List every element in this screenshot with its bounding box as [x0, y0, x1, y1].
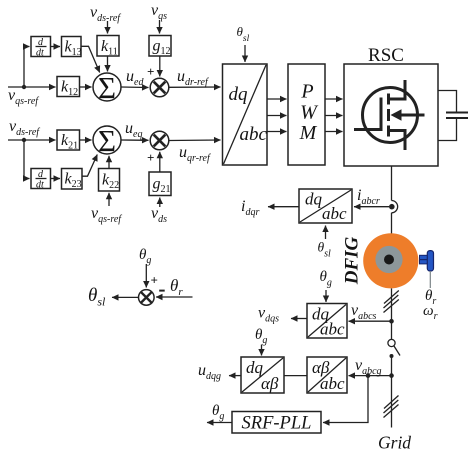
- svg-text:dt: dt: [36, 180, 44, 191]
- svg-text:ued: ued: [126, 68, 144, 88]
- summer theta_sl (multiplier style): [139, 290, 155, 306]
- svg-text:idqr: idqr: [241, 198, 259, 218]
- gain block k12: [57, 77, 80, 97]
- svg-text:dt: dt: [36, 48, 44, 59]
- wire theta_sl up into dq/abc: [325, 226, 327, 240]
- wire k11 down to summer: [107, 56, 109, 72]
- wire k23 to summer (diagonal): [82, 155, 97, 177]
- capacitor C (DC-link): [446, 113, 468, 119]
- wire PWM to RSC (phase a): [325, 98, 343, 100]
- machine DFIG (stator orange): [363, 233, 418, 288]
- block SRF-PLL: [232, 412, 321, 434]
- wire k22 up to summer: [108, 156, 110, 169]
- svg-text:vdqs: vdqs: [258, 305, 279, 325]
- derivative block d/dt (row1): [31, 37, 51, 57]
- wire branch up to d/dt: [24, 47, 30, 88]
- three-phase marks (grid): [384, 396, 399, 418]
- minus sign (slip summer): [159, 290, 165, 292]
- svg-text:k22: k22: [102, 172, 119, 192]
- wire theta_sl into dq/abc: [244, 45, 246, 62]
- svg-text:g21: g21: [153, 176, 171, 196]
- node SRF-PLL tap junction: [366, 373, 371, 378]
- svg-text:dq: dq: [229, 84, 249, 105]
- svg-text:iabcr: iabcr: [357, 187, 380, 207]
- svg-text:k23: k23: [65, 171, 82, 191]
- derivative block d/dt (row2): [31, 169, 51, 189]
- wire dq/abc to PWM (phase c): [267, 131, 287, 133]
- wire k21 to summer: [80, 139, 92, 141]
- wire v_ds-ref into k11: [107, 21, 109, 34]
- machine DFIG (shaft center): [384, 255, 394, 265]
- gain block k22: [99, 169, 120, 192]
- switch (grid breaker): [388, 321, 400, 358]
- gain block k21: [57, 130, 80, 150]
- wire theta_g into dq/ab: [261, 345, 263, 356]
- multiplier (row2): [150, 131, 169, 150]
- wire d/dt to k13: [51, 46, 61, 48]
- wire theta_g output of SRF-PLL: [207, 422, 232, 424]
- gain block k23: [62, 169, 83, 190]
- svg-text:vqs-ref: vqs-ref: [91, 205, 122, 225]
- wire v_qs-ref main line into k12: [8, 86, 56, 88]
- gain block k13: [62, 37, 82, 57]
- PWM block: [288, 64, 325, 165]
- summing junction (row1): [93, 73, 121, 101]
- svg-text:θg: θg: [212, 403, 224, 422]
- wire summer to multiplier, label u_ed: [121, 86, 149, 89]
- current tap loop on rotor line: [392, 201, 398, 213]
- wire ab/abc to dq/ab: [284, 375, 307, 377]
- svg-text:abc: abc: [320, 320, 345, 339]
- transform block dq/abc (rotor current): [299, 189, 352, 223]
- svg-text:k21: k21: [61, 132, 78, 152]
- converter block RSC: [344, 64, 438, 166]
- svg-text:+: +: [147, 64, 154, 79]
- wire d/dt to k23: [51, 178, 61, 180]
- svg-text:k13: k13: [65, 39, 82, 59]
- svg-text:vabcs: vabcs: [351, 302, 377, 322]
- svg-text:DFIG: DFIG: [342, 236, 363, 285]
- svg-text:vds-ref: vds-ref: [90, 4, 121, 24]
- svg-text:Σ: Σ: [98, 70, 116, 105]
- wire g12 down to multiplier: [159, 56, 161, 77]
- svg-text:θg: θg: [255, 327, 267, 346]
- svg-text:+: +: [147, 150, 154, 165]
- gain block g21: [149, 172, 171, 196]
- svg-text:k12: k12: [61, 79, 78, 99]
- summing junction (row2): [93, 126, 121, 154]
- wire RSC output down to current tap: [391, 166, 393, 201]
- wire v_abcg into ab/abc: [349, 375, 392, 377]
- wire tap down to DFIG: [391, 213, 393, 234]
- svg-text:dq: dq: [305, 190, 323, 209]
- three-phase marks (stator): [384, 291, 399, 313]
- svg-text:udr-ref: udr-ref: [177, 68, 209, 88]
- svg-text:P: P: [300, 81, 313, 103]
- wire theta_g into dq/abc (stator): [325, 290, 327, 302]
- wire v_ds up into g21: [159, 198, 161, 208]
- junction (row1 branch): [22, 85, 26, 89]
- wire PWM to RSC (phase c): [325, 131, 343, 133]
- wire i_abcr into dq/abc: [354, 206, 389, 208]
- svg-text:θsl: θsl: [237, 24, 250, 44]
- svg-text:ueq: ueq: [125, 120, 142, 140]
- svg-text:vds-ref: vds-ref: [9, 118, 40, 138]
- svg-text:M: M: [299, 122, 318, 144]
- wire k13 to summer (diagonal): [81, 46, 100, 72]
- wire theta_r into slip summer: [156, 296, 193, 298]
- transistor (MOSFET symbol inside RSC): [354, 80, 425, 150]
- svg-text:+: +: [151, 273, 158, 288]
- svg-text:vqs-ref: vqs-ref: [8, 87, 39, 107]
- wire v_ds-ref main line into k21: [8, 139, 56, 141]
- transform block dq/abc (stator voltage): [307, 304, 347, 339]
- node i_abcr (tap dot): [389, 204, 395, 210]
- junction (row2 branch): [22, 138, 26, 142]
- node v_abcs junction: [389, 319, 394, 324]
- svg-text:W: W: [300, 102, 319, 124]
- wire multiplier to dq/abc, label u_qr-ref: [169, 139, 221, 142]
- wire PWM to RSC (phase b): [325, 115, 343, 117]
- svg-text:SRF-PLL: SRF-PLL: [242, 414, 312, 434]
- machine DFIG (rotor gray): [375, 246, 402, 273]
- wire k12 to summer: [80, 86, 92, 88]
- svg-text:g12: g12: [153, 38, 171, 58]
- svg-text:θg: θg: [139, 247, 151, 266]
- wire multiplier to dq/abc, label u_dr-ref: [169, 86, 221, 88]
- node v_abcg junction: [389, 373, 394, 378]
- wire branch down to d/dt (row2): [24, 140, 30, 179]
- gain block g12: [149, 36, 171, 57]
- transform block ab/abc (grid voltage): [307, 357, 347, 393]
- svg-text:abc: abc: [322, 204, 347, 223]
- svg-text:vds: vds: [151, 205, 167, 225]
- gain block k11: [97, 36, 119, 57]
- svg-text:Grid: Grid: [378, 433, 411, 453]
- wire v_qs into g12: [159, 20, 161, 34]
- wire RSC to DC-link (top): [438, 91, 457, 112]
- wire shaft to speed labels: [429, 271, 431, 288]
- svg-text:θsl: θsl: [88, 285, 106, 309]
- transform block dq/ab: [241, 357, 284, 393]
- svg-text:k11: k11: [101, 38, 118, 58]
- wire v_qs-ref up into k22: [108, 193, 110, 206]
- svg-text:abc: abc: [240, 124, 268, 145]
- wire v_dqs output: [291, 318, 307, 320]
- multiplier (row1): [150, 78, 169, 97]
- svg-text:αβ: αβ: [261, 374, 279, 393]
- wire theta_sl output: [112, 296, 139, 298]
- svg-text:udqg: udqg: [198, 362, 221, 382]
- wire DFIG stator down: [391, 288, 393, 321]
- svg-text:vqs: vqs: [151, 2, 167, 22]
- wire dq/abc to PWM (phase b): [267, 115, 287, 117]
- svg-text:uqr-ref: uqr-ref: [179, 144, 211, 164]
- svg-text:abc: abc: [320, 374, 345, 393]
- svg-text:θr: θr: [170, 276, 183, 298]
- transform block dq/abc (rotor voltage): [223, 64, 268, 165]
- svg-text:Σ: Σ: [98, 123, 116, 158]
- svg-text:θg: θg: [320, 269, 332, 289]
- wire theta_g into slip summer: [145, 264, 147, 288]
- wire switch down to grid: [391, 356, 393, 428]
- wire v_abcs into dq/abc: [349, 320, 392, 322]
- wire tap down into SRF-PLL: [323, 376, 368, 423]
- wire dq/abc to PWM (phase a): [267, 98, 287, 100]
- shaft (blue): [420, 251, 434, 271]
- wire summer to multiplier, label u_eq: [121, 139, 149, 141]
- svg-text:RSC: RSC: [368, 45, 404, 66]
- wire g21 up to multiplier: [159, 152, 161, 172]
- svg-text:θsl: θsl: [318, 240, 332, 260]
- wire i_dqr output: [268, 206, 299, 208]
- wire u_dqg output: [229, 375, 241, 377]
- wire DC-link to RSC (bottom): [438, 119, 457, 141]
